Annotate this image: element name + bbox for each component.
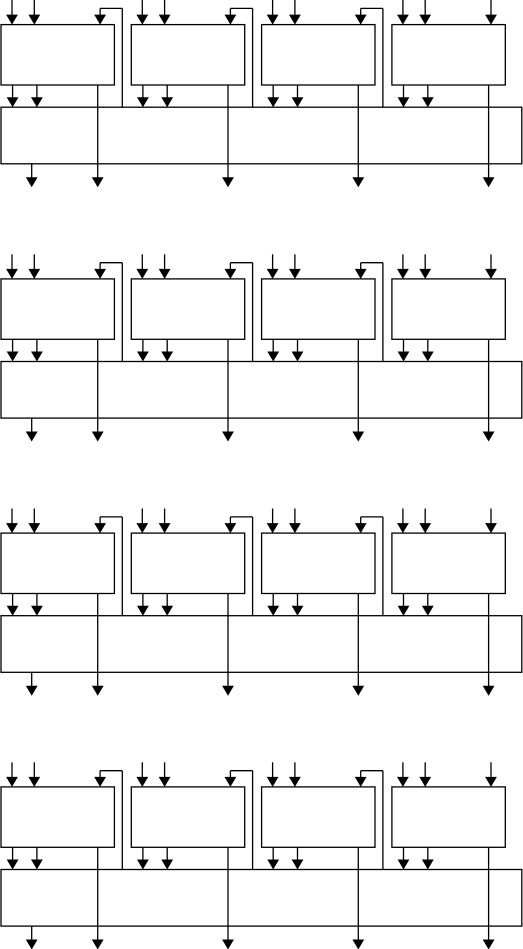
wire feedback elbow R1B1	[99, 8, 101, 16]
wire output R2L	[31, 418, 33, 433]
arrowhead output b R3B4	[422, 606, 434, 616]
wire pass-through R1B4	[488, 85, 490, 179]
arrowhead pass-through R2B3	[352, 432, 364, 442]
wire input b R2B4	[424, 254, 426, 271]
wire output b R4B2	[166, 847, 168, 861]
wire output a R3B1	[12, 594, 14, 608]
wire input b R3B4	[424, 509, 426, 526]
arrowhead output a R4B4	[398, 860, 410, 870]
wire output b R1B2	[166, 85, 168, 99]
arrowhead feedback R4B3	[355, 777, 367, 787]
arrowhead input b R4B2	[159, 777, 171, 787]
wire input b R1B1	[33, 0, 35, 17]
block R4B1	[1, 787, 114, 847]
arrowhead output a R2B3	[267, 352, 279, 362]
wire feedback vertical R1B3	[382, 8, 384, 107]
wire pass-through R4B4	[488, 847, 490, 941]
wire feedback elbow R4B1	[99, 771, 101, 779]
wire feedback horizontal R1B2	[230, 7, 252, 9]
arrowhead output a R1B4	[398, 97, 410, 107]
arrowhead feedback R2B2	[225, 269, 237, 279]
arrowhead input a R2B4	[397, 269, 409, 279]
arrowhead feedback R1B2	[225, 15, 237, 25]
arrowhead pass-through R4B3	[352, 940, 364, 949]
wire output a R3B4	[403, 594, 405, 608]
wire input b R4B3	[294, 762, 296, 779]
wire input c R1B4	[490, 0, 492, 17]
wire feedback elbow R3B2	[229, 517, 231, 525]
wire output a R1B2	[142, 85, 144, 99]
wire output b R3B4	[427, 594, 429, 608]
block R3B2	[131, 533, 244, 593]
wire feedback vertical R4B2	[252, 771, 254, 870]
wire output b R2B3	[297, 339, 299, 353]
wire feedback horizontal R4B1	[100, 770, 122, 772]
arrowhead input b R2B3	[289, 269, 301, 279]
arrowhead input a R3B1	[6, 523, 18, 533]
wire output a R1B1	[12, 85, 14, 99]
wire feedback elbow R2B1	[99, 263, 101, 271]
arrowhead output a R1B3	[267, 97, 279, 107]
wire input a R4B1	[11, 762, 13, 779]
arrowhead pass-through R4B1	[92, 940, 104, 949]
wire output b R1B3	[297, 85, 299, 99]
wire input a R1B3	[272, 0, 274, 17]
wire feedback vertical R4B3	[382, 771, 384, 870]
arrowhead input b R3B3	[289, 523, 301, 533]
wire pass-through R4B2	[227, 847, 229, 941]
wire input b R1B4	[424, 0, 426, 17]
block R1B1	[1, 25, 114, 85]
wire pass-through R1B2	[227, 85, 229, 179]
arrowhead input b R1B4	[419, 15, 431, 25]
arrowhead pass-through R3B2	[222, 686, 234, 696]
wire input c R2B4	[490, 254, 492, 271]
wire output R4L	[31, 926, 33, 941]
wire output a R4B2	[142, 847, 144, 861]
arrowhead input a R1B3	[267, 15, 279, 25]
arrowhead input b R3B1	[28, 523, 40, 533]
wire output a R3B3	[272, 594, 274, 608]
arrowhead output b R3B3	[292, 606, 304, 616]
wire output a R2B3	[272, 339, 274, 353]
wire output b R4B3	[297, 847, 299, 861]
wire feedback vertical R4B1	[121, 771, 123, 870]
arrowhead output b R2B2	[161, 352, 173, 362]
wire input b R1B2	[164, 0, 166, 17]
wire output b R1B1	[36, 85, 38, 99]
arrowhead feedback R1B1	[94, 15, 106, 25]
arrowhead input b R1B3	[289, 15, 301, 25]
arrowhead input c R1B4	[485, 15, 497, 25]
wire feedback horizontal R3B3	[361, 516, 383, 518]
block R2B2	[131, 279, 244, 339]
arrowhead output a R4B2	[137, 860, 149, 870]
wire input b R3B1	[33, 509, 35, 526]
wire feedback elbow R1B3	[360, 8, 362, 16]
wire input b R3B3	[294, 509, 296, 526]
arrowhead output b R4B3	[292, 860, 304, 870]
wire input a R2B3	[272, 254, 274, 271]
arrowhead output a R1B1	[7, 97, 19, 107]
wire output b R3B3	[297, 594, 299, 608]
arrowhead output R1L	[26, 177, 38, 187]
block R1B4	[392, 25, 505, 85]
wire input b R4B4	[424, 762, 426, 779]
arrowhead output R2L	[26, 432, 38, 442]
arrowhead feedback R3B1	[94, 523, 106, 533]
wire feedback elbow R4B3	[360, 771, 362, 779]
arrowhead input b R2B2	[159, 269, 171, 279]
arrowhead pass-through R2B4	[483, 432, 495, 442]
wire feedback vertical R2B2	[252, 263, 254, 362]
wire input b R2B2	[164, 254, 166, 271]
wire pass-through R3B2	[227, 594, 229, 688]
wire feedback elbow R2B3	[360, 263, 362, 271]
arrowhead feedback R1B3	[355, 15, 367, 25]
block R1B2	[131, 25, 244, 85]
block R3B3	[262, 533, 375, 593]
arrowhead feedback R4B1	[94, 777, 106, 787]
arrowhead output a R3B4	[398, 606, 410, 616]
wire input a R4B3	[272, 762, 274, 779]
arrowhead pass-through R1B2	[222, 177, 234, 187]
wire output a R2B1	[12, 339, 14, 353]
arrowhead input a R1B4	[397, 15, 409, 25]
arrowhead pass-through R1B3	[352, 177, 364, 187]
wire feedback elbow R1B2	[229, 8, 231, 16]
arrowhead feedback R3B3	[355, 523, 367, 533]
wire input a R1B2	[141, 0, 143, 17]
arrowhead output a R4B1	[7, 860, 19, 870]
wire feedback elbow R3B1	[99, 517, 101, 525]
arrowhead output a R3B2	[137, 606, 149, 616]
wire output R1L	[31, 164, 33, 179]
wire feedback horizontal R2B3	[361, 262, 383, 264]
arrowhead pass-through R3B4	[483, 686, 495, 696]
block R3B4	[392, 533, 505, 593]
wire pass-through R1B3	[357, 85, 359, 179]
wire feedback vertical R2B3	[382, 263, 384, 362]
wire pass-through R3B4	[488, 594, 490, 688]
wire input a R1B4	[402, 0, 404, 17]
arrowhead input b R3B4	[419, 523, 431, 533]
arrowhead input a R4B2	[136, 777, 148, 787]
block R1L (linear layer)	[1, 107, 522, 164]
arrowhead output b R3B1	[31, 606, 43, 616]
block R2B1	[1, 279, 114, 339]
arrowhead input a R2B3	[267, 269, 279, 279]
arrowhead pass-through R2B1	[92, 432, 104, 442]
block R3L (linear layer)	[1, 616, 522, 673]
arrowhead input c R2B4	[485, 269, 497, 279]
block R2B4	[392, 279, 505, 339]
arrowhead output b R1B3	[292, 97, 304, 107]
wire input b R1B3	[294, 0, 296, 17]
wire feedback vertical R1B2	[252, 8, 254, 107]
arrowhead output a R1B2	[137, 97, 149, 107]
arrowhead feedback R4B2	[225, 777, 237, 787]
wire feedback horizontal R4B2	[230, 770, 252, 772]
arrowhead output b R2B4	[422, 352, 434, 362]
arrowhead pass-through R1B1	[92, 177, 104, 187]
wire pass-through R3B3	[357, 594, 359, 688]
arrowhead pass-through R3B3	[352, 686, 364, 696]
arrowhead output a R3B1	[7, 606, 19, 616]
wire feedback elbow R2B2	[229, 263, 231, 271]
wire feedback vertical R3B2	[252, 517, 254, 616]
wire feedback horizontal R3B2	[230, 516, 252, 518]
block R4B4	[392, 787, 505, 847]
wire feedback horizontal R4B3	[361, 770, 383, 772]
wire input a R2B2	[141, 254, 143, 271]
wire input c R4B4	[490, 762, 492, 779]
arrowhead input a R4B1	[6, 777, 18, 787]
arrowhead input a R4B3	[267, 777, 279, 787]
wire feedback horizontal R2B2	[230, 262, 252, 264]
arrowhead input b R1B2	[159, 15, 171, 25]
arrowhead input a R3B3	[267, 523, 279, 533]
wire input a R1B1	[11, 0, 13, 17]
arrowhead output b R4B2	[161, 860, 173, 870]
wire pass-through R3B1	[97, 594, 99, 688]
wire pass-through R2B1	[97, 339, 99, 433]
arrowhead feedback R2B3	[355, 269, 367, 279]
arrowhead input c R4B4	[485, 777, 497, 787]
block R2L (linear layer)	[1, 362, 522, 419]
block R1B3	[262, 25, 375, 85]
wire output b R2B4	[427, 339, 429, 353]
wire output b R2B2	[166, 339, 168, 353]
arrowhead output a R2B4	[398, 352, 410, 362]
block R2B3	[262, 279, 375, 339]
wire input b R2B3	[294, 254, 296, 271]
arrowhead pass-through R3B1	[92, 686, 104, 696]
wire output R3L	[31, 672, 33, 687]
wire output b R3B1	[36, 594, 38, 608]
arrowhead output b R4B1	[31, 860, 43, 870]
arrowhead input b R3B2	[159, 523, 171, 533]
arrowhead input a R3B4	[397, 523, 409, 533]
arrowhead input b R4B3	[289, 777, 301, 787]
wire feedback vertical R3B3	[382, 517, 384, 616]
wire input a R4B2	[141, 762, 143, 779]
wire input a R2B1	[11, 254, 13, 271]
arrowhead output b R3B2	[161, 606, 173, 616]
wire output b R4B1	[36, 847, 38, 861]
arrowhead pass-through R1B4	[483, 177, 495, 187]
block R3B1	[1, 533, 114, 593]
arrowhead output b R2B3	[292, 352, 304, 362]
block R4L (linear layer)	[1, 870, 522, 927]
block R4B2	[131, 787, 244, 847]
arrowhead input a R3B2	[136, 523, 148, 533]
wire output b R3B2	[166, 594, 168, 608]
arrowhead output b R1B1	[31, 97, 43, 107]
arrowhead output b R1B2	[161, 97, 173, 107]
wire feedback horizontal R1B3	[361, 7, 383, 9]
wire output a R3B2	[142, 594, 144, 608]
wire output a R4B1	[12, 847, 14, 861]
wire input b R4B2	[164, 762, 166, 779]
wire feedback elbow R4B2	[229, 771, 231, 779]
wire output a R2B4	[403, 339, 405, 353]
arrowhead pass-through R2B2	[222, 432, 234, 442]
wire output a R1B4	[403, 85, 405, 99]
wire feedback elbow R3B3	[360, 517, 362, 525]
arrowhead input a R2B1	[6, 269, 18, 279]
arrowhead input b R4B1	[28, 777, 40, 787]
arrowhead input c R3B4	[485, 523, 497, 533]
wire output a R4B4	[403, 847, 405, 861]
wire input b R4B1	[33, 762, 35, 779]
arrowhead output a R2B1	[7, 352, 19, 362]
wire input c R3B4	[490, 509, 492, 526]
wire feedback vertical R2B1	[121, 263, 123, 362]
arrowhead output R4L	[26, 940, 38, 949]
wire output a R2B2	[142, 339, 144, 353]
arrowhead input b R1B1	[28, 15, 40, 25]
arrowhead input b R4B4	[419, 777, 431, 787]
wire output b R1B4	[427, 85, 429, 99]
wire pass-through R4B3	[357, 847, 359, 941]
arrowhead input b R2B1	[28, 269, 40, 279]
wire output a R4B3	[272, 847, 274, 861]
arrowhead output a R2B2	[137, 352, 149, 362]
arrowhead input b R2B4	[419, 269, 431, 279]
wire pass-through R2B3	[357, 339, 359, 433]
wire feedback horizontal R2B1	[100, 262, 122, 264]
wire output a R1B3	[272, 85, 274, 99]
wire input a R3B3	[272, 509, 274, 526]
arrowhead input a R1B2	[136, 15, 148, 25]
arrowhead output a R3B3	[267, 606, 279, 616]
wire input a R3B4	[402, 509, 404, 526]
arrowhead input a R1B1	[6, 15, 18, 25]
wire feedback horizontal R1B1	[100, 7, 122, 9]
wire feedback vertical R1B1	[121, 8, 123, 107]
arrowhead output b R2B1	[31, 352, 43, 362]
wire input a R4B4	[402, 762, 404, 779]
wire pass-through R1B1	[97, 85, 99, 179]
wire input a R3B1	[11, 509, 13, 526]
arrowhead output b R4B4	[422, 860, 434, 870]
arrowhead output b R1B4	[422, 97, 434, 107]
wire feedback horizontal R3B1	[100, 516, 122, 518]
arrowhead feedback R2B1	[94, 269, 106, 279]
wire output b R2B1	[36, 339, 38, 353]
wire pass-through R2B2	[227, 339, 229, 433]
wire input a R3B2	[141, 509, 143, 526]
block R4B3	[262, 787, 375, 847]
wire input b R3B2	[164, 509, 166, 526]
arrowhead output R3L	[26, 686, 38, 696]
arrowhead input a R2B2	[136, 269, 148, 279]
arrowhead pass-through R4B4	[483, 940, 495, 949]
wire input b R2B1	[33, 254, 35, 271]
arrowhead input a R4B4	[397, 777, 409, 787]
wire output b R4B4	[427, 847, 429, 861]
wire input a R2B4	[402, 254, 404, 271]
wire pass-through R2B4	[488, 339, 490, 433]
wire feedback vertical R3B1	[121, 517, 123, 616]
arrowhead pass-through R4B2	[222, 940, 234, 949]
arrowhead output a R4B3	[267, 860, 279, 870]
arrowhead feedback R3B2	[225, 523, 237, 533]
wire pass-through R4B1	[97, 847, 99, 941]
